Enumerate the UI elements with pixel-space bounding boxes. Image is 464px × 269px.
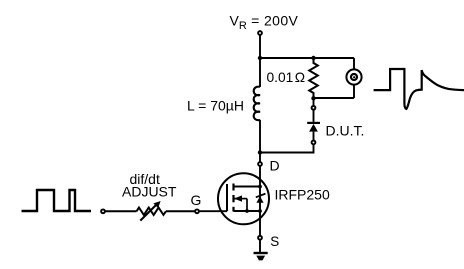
diode D.U.T. [307,123,320,132]
transistor Q1 IRFP250 body circle [218,173,269,224]
svg-text:D.U.T.: D.U.T. [326,123,365,139]
inductor L1 [254,87,260,121]
wire potentiometer to gate terminal [166,210,195,212]
potentiometer R1 dif/dt ADJUST zigzag [137,208,166,215]
wire drain node to D terminal [259,153,261,163]
DUT socket bottom [312,141,316,145]
terminal VR [258,31,262,35]
mosfet source tap [234,210,261,212]
DUT socket top [312,106,316,110]
wire scope right leg bottom [353,85,355,98]
junction resistor bottom [311,96,315,100]
current probe scope center dot [353,76,355,78]
wire gate lead [199,210,227,212]
wire drain vertical through mosfet [259,166,261,236]
svg-text:0.01: 0.01 [267,70,294,85]
wire diode to bottom socket [313,132,315,141]
wire top rail [260,57,354,59]
svg-text:D: D [270,158,280,174]
wire socket to diode [313,110,315,122]
node D terminal [258,162,262,166]
wire bottom rail [314,97,355,99]
resistor 0.01 ohm [309,58,318,99]
mosfet drain tap [234,186,261,188]
svg-text:ADJUST: ADJUST [122,184,177,200]
mosfet channel segment bottom [232,207,234,212]
current probe scope outer circle [346,69,361,84]
junction source tap [258,209,262,213]
wire input terminal to potentiometer [105,210,137,212]
ground [254,253,268,260]
junction drain node [258,150,262,154]
mosfet gate bar [226,184,228,211]
svg-text:S: S [270,234,279,249]
node G terminal [195,209,199,213]
wire VR terminal to node A [259,35,261,58]
svg-text:IRFP250: IRFP250 [275,187,330,203]
wire scope right leg top [353,58,355,69]
mosfet channel segment top [232,184,234,191]
wire node A to inductor [259,58,261,87]
mosfet body diode [256,194,266,203]
svg-text:Ω: Ω [295,70,305,85]
current probe scope inner circle [351,74,357,80]
wire inductor to drain node [259,120,261,153]
wire DUT to drain node [260,144,314,152]
input terminal node [101,209,105,213]
junction drain tap [258,185,262,189]
output waveform [374,69,464,109]
input square wave [22,190,92,211]
wire source to ground [259,240,261,254]
junction resistor top [311,56,315,60]
wire junction to DUT top socket [313,98,315,105]
junction node A [258,56,262,60]
potentiometer arrow [140,201,160,221]
node S terminal [258,236,262,240]
mosfet body arrow [234,195,249,213]
mosfet channel segment middle [232,195,234,202]
svg-text:G: G [191,192,202,208]
svg-text:L = 70µH: L = 70µH [187,98,244,114]
